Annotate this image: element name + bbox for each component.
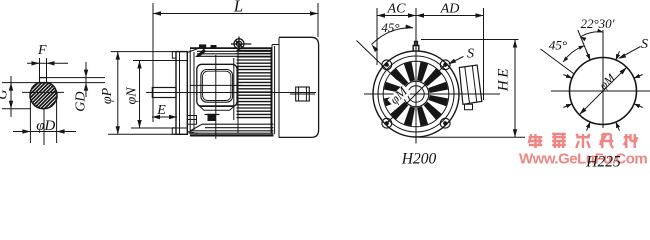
svg-text:H225: H225	[585, 154, 621, 169]
bearing window inner frame second line	[203, 71, 231, 100]
terminal bolts on top	[199, 44, 206, 48]
bearing window inner frame	[201, 70, 233, 103]
leader S (H200)	[450, 57, 464, 64]
flange face inner line	[179, 52, 181, 135]
svg-text:22°30′: 22°30′	[580, 16, 614, 31]
body top second lines	[197, 50, 272, 52]
pedestal below window	[199, 106, 235, 111]
H200 radial fins	[384, 62, 448, 126]
H200 bolt circle ring	[383, 61, 449, 127]
45-degree radial line (H225)	[541, 49, 574, 74]
transition rib right of window	[233, 58, 235, 120]
dimension phiD extension lines	[29, 101, 31, 143]
window horizontal centerline	[190, 84, 242, 86]
svg-text:φD: φD	[36, 118, 55, 134]
dimension L extension lines	[152, 3, 154, 122]
svg-text:H200: H200	[401, 151, 437, 168]
dimension phiP extension lines	[111, 51, 176, 53]
svg-text:AD: AD	[440, 2, 460, 17]
45-degree line (H200)	[357, 41, 398, 81]
key top extension line	[40, 77, 106, 79]
phiM diagonal dimension line (H200)	[386, 64, 447, 125]
dimension AD line and arrows	[416, 15, 484, 17]
leader S (H225)	[620, 47, 641, 59]
svg-text:S: S	[641, 37, 648, 52]
svg-text:φP: φP	[100, 87, 115, 104]
terminal box inner lines	[465, 66, 477, 104]
svg-text:φN: φN	[125, 87, 140, 105]
svg-text:45°: 45°	[381, 20, 399, 35]
H200 hub circles	[403, 81, 429, 107]
front bearing bracket	[187, 49, 198, 134]
H200 outer circle	[373, 51, 459, 137]
bell top dark wedge	[195, 49, 206, 58]
dimension HE extension lines	[421, 39, 519, 41]
dimension G line and arrows	[10, 76, 12, 117]
motor body top edge	[190, 47, 272, 49]
bearing window outer frame	[197, 64, 237, 106]
H200 fin ring	[378, 56, 454, 132]
shaft circle outline with keyway flat	[30, 83, 57, 109]
H200 corner lugs with bolt holes	[440, 118, 450, 128]
22deg30 arc arrows (H225)	[581, 32, 603, 37]
fan cover box	[296, 87, 310, 101]
shaft extension stub	[152, 88, 176, 98]
22.5-degree radial line (H225)	[578, 30, 590, 60]
rear bracket	[272, 38, 279, 138]
dimension AC line and arrows	[377, 15, 416, 17]
terminal box (H200)	[459, 65, 482, 104]
H225 bolt circle	[570, 58, 637, 125]
dimension GD line and arrows	[85, 62, 87, 97]
dimension phiP line and arrows	[117, 52, 119, 135]
motor axis centerline	[146, 92, 316, 94]
dimension L line and arrows	[153, 13, 318, 15]
svg-text:F: F	[37, 43, 47, 58]
45-degree arc arrow (H200)	[372, 28, 414, 45]
H200 horizontal centerline	[364, 93, 500, 95]
circle bottom tangent extension (for G)	[2, 108, 31, 110]
motor dimension drawing	[0, 0, 650, 168]
fan cover box centerline	[290, 93, 315, 95]
lifting eyebolt	[231, 37, 251, 51]
dimension F extension lines	[39, 58, 41, 78]
foot block at flange	[188, 116, 197, 125]
mounting base	[189, 124, 274, 133]
key cross-section on flat	[40, 78, 47, 83]
svg-text:GD: GD	[74, 92, 89, 112]
phiM diagonal dimension (H225)	[579, 67, 626, 114]
flange top-left tab	[172, 52, 176, 59]
dimension E line and arrows	[152, 116, 177, 118]
fan cover box inner lines	[298, 87, 300, 101]
flange plate	[176, 52, 187, 135]
H200 vertical centerline	[415, 8, 417, 144]
flange bottom-left tab	[172, 128, 176, 135]
svg-text:G: G	[0, 89, 11, 99]
fan cover	[279, 37, 319, 137]
45-degree arc (H225)	[563, 46, 584, 62]
H225 horizontal centerline	[551, 90, 650, 92]
svg-text:E: E	[156, 103, 166, 118]
svg-text:45°: 45°	[549, 38, 567, 53]
watermark chinese characters 格鲁夫机械 (drawn as strokes)	[529, 134, 638, 148]
dimension AC/AD extension lines	[376, 8, 378, 65]
fins left and right borders	[237, 48, 239, 133]
label phiM (H200)	[387, 84, 411, 108]
H200 top eyebolt	[413, 42, 419, 52]
drain plug block	[208, 114, 217, 121]
svg-text:S: S	[467, 47, 474, 62]
dimension phiN extension lines	[133, 60, 176, 62]
H225 bolt position arrows	[616, 51, 620, 60]
mounting base bottom thick line	[190, 134, 274, 136]
svg-text:AC: AC	[387, 2, 407, 17]
terminal box lower stub	[465, 104, 473, 110]
window vertical centerline	[215, 55, 217, 139]
svg-text:L: L	[233, 0, 243, 16]
cooling fins (side view horizontal lines)	[237, 50, 272, 117]
dimension HE line and arrows	[514, 40, 516, 138]
flange spigot lines (phiN)	[176, 60, 187, 62]
dimension F line and arrows	[27, 62, 68, 64]
dimension phiD line and arrows	[13, 131, 76, 133]
keyway flat extension line (long horizontal)	[2, 82, 105, 84]
dimension phiN line and arrows	[139, 61, 141, 129]
shaft vertical centerline below	[43, 110, 45, 146]
H225 vertical centerline	[602, 30, 604, 128]
svg-text:HE: HE	[496, 66, 512, 92]
shaft horizontal centerline	[22, 91, 64, 93]
svg-text:Www.GeLuFu.Com: Www.GeLuFu.Com	[519, 151, 647, 168]
